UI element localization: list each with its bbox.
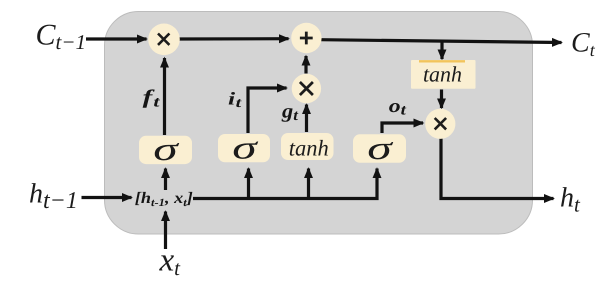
- sigma input gate box: [218, 130, 270, 166]
- svg-text:Ct−1: Ct−1: [36, 19, 87, 55]
- svg-text:ht: ht: [560, 183, 581, 217]
- label it: [228, 89, 243, 112]
- label ft: [143, 86, 161, 110]
- label concat node [ht-1, xt]: [135, 190, 193, 209]
- svg-text:Ct: Ct: [571, 28, 596, 61]
- wire xt input up to concat node: [164, 212, 167, 250]
- label Ct-1: [36, 19, 87, 55]
- wire input multiply node up to add node: [304, 56, 307, 74]
- tanh unit box (right, on C path): [411, 60, 476, 89]
- label ht-1: [29, 179, 78, 215]
- wire sigma forget gate to multiply node, label f_t: [163, 58, 166, 135]
- svg-text:tanh: tanh: [289, 135, 329, 160]
- svg-text:xt: xt: [159, 243, 182, 281]
- label gt: [281, 100, 299, 124]
- wire sigma input gate to input multiply node, label i_t: [248, 88, 287, 133]
- add node (top middle): [291, 23, 321, 53]
- wire sigma output gate to output multiply node, label o_t: [382, 123, 423, 133]
- svg-text:σ: σ: [153, 132, 180, 168]
- wire branch up to tanh gate: [307, 169, 310, 199]
- wire Ct-1 input to forget multiply node: [86, 37, 147, 40]
- svg-text:σ: σ: [232, 130, 259, 166]
- label xt: [159, 243, 182, 281]
- wire add node to Ct output: [321, 40, 562, 43]
- wire output multiply node down and right to ht output: [441, 139, 554, 199]
- svg-text:ht−1: ht−1: [29, 179, 78, 215]
- multiply node forget (top left): [148, 24, 180, 56]
- label Ct: [571, 28, 596, 61]
- wire forget multiply node to add node: [179, 37, 289, 40]
- sigma output gate box: [353, 131, 406, 167]
- wire branch down from C line to tanh unit: [440, 42, 443, 60]
- wire tanh unit down to output multiply node: [440, 90, 443, 109]
- wire concat node up to sigma forget gate: [164, 169, 167, 191]
- multiply node output (right): [425, 109, 455, 139]
- wire concat bus right with branch up to sigma output gate: [193, 169, 377, 199]
- multiply node input (middle): [292, 74, 321, 103]
- wire ht-1 input to concat node: [82, 196, 132, 199]
- svg-text:tanh: tanh: [423, 61, 462, 86]
- LSTM cell body: [105, 12, 533, 235]
- label ht: [560, 183, 581, 217]
- wire tanh gate to input multiply node, label g_t: [305, 105, 308, 133]
- wire branch up to sigma input gate: [247, 169, 250, 199]
- label ot: [389, 96, 407, 119]
- sigma forget gate box: [139, 132, 192, 168]
- tanh gate box (middle): [281, 133, 334, 160]
- svg-text:σ: σ: [367, 131, 394, 167]
